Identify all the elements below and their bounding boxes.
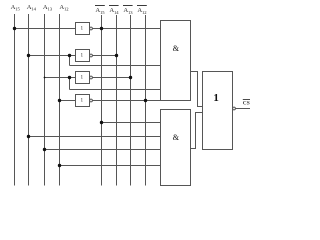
svg-text:CS: CS [243, 101, 250, 107]
svg-text:15: 15 [15, 7, 20, 12]
svg-text:14: 14 [31, 7, 36, 12]
wire OR output [235, 108, 250, 110]
node nA14 label [109, 6, 119, 15]
svg-text:15: 15 [100, 10, 105, 15]
svg-text:1: 1 [81, 74, 84, 80]
wire row4 A12 to inverter 4 input [60, 100, 76, 102]
junction dot A12 AND2 [58, 164, 61, 167]
wire row3 inverter 3 output to nA13 bus [93, 77, 131, 79]
svg-text:13: 13 [128, 10, 133, 15]
junction dot nA15 AND2 [100, 121, 103, 124]
and-gate D1 [161, 21, 191, 101]
wire row1 A15 to inverter 1 input [15, 28, 76, 30]
node nA13 label [123, 6, 133, 15]
wire A12 to AND2 input 4 [60, 165, 161, 167]
wire bus nA12 vertical [145, 15, 147, 186]
svg-text:1: 1 [81, 25, 84, 31]
node nA15 label [95, 6, 105, 15]
wire AND1 output to OR input 1 [191, 72, 203, 107]
wire A13 to AND1 input 3 [70, 89, 161, 91]
junction dot A14 AND2 [27, 135, 30, 138]
wire row1 inverter 1 output to AND1 input 1 [93, 28, 161, 30]
junction dot nA13 row3 [129, 76, 132, 79]
node CS output label [243, 100, 250, 107]
junction dot branch A14 [68, 54, 71, 57]
junction dot branch A13 [68, 76, 71, 79]
wire nA15 to AND2 input 1 [102, 122, 161, 124]
node nA12 label [137, 6, 147, 15]
junction dot A14 row2 [27, 54, 30, 57]
wire row4 inverter 4 output to AND1 input 4 [93, 100, 161, 102]
inverter U4 [76, 95, 93, 107]
inverter U3 [76, 72, 93, 84]
svg-text:&: & [173, 133, 180, 142]
wire bus A15 vertical [14, 14, 16, 186]
junction dot nA12 row4 [144, 99, 147, 102]
wire branch A13 down [69, 78, 71, 90]
junction dot A13 row3 [44, 77, 46, 79]
wire bus A13 vertical [44, 14, 46, 186]
svg-text:12: 12 [64, 7, 69, 12]
wire row3 A13 to inverter 3 input [45, 77, 76, 79]
junction dot nA14 row2 [115, 54, 118, 57]
wire A13 to AND2 input 3 [45, 149, 161, 151]
inverter U1 [76, 23, 93, 35]
junction dot A15 row1 [13, 27, 16, 30]
svg-text:1: 1 [81, 97, 84, 103]
wire bus nA13 vertical [130, 15, 132, 186]
inverter U2 [76, 50, 93, 62]
wire AND2 output to OR input 2 [191, 113, 203, 149]
junction dot A12 row4 [58, 99, 61, 102]
or-gate D3 [203, 72, 236, 150]
node A12 label [59, 4, 69, 12]
svg-text:13: 13 [48, 7, 53, 12]
wire bus A12 vertical [59, 14, 61, 186]
junction dot A13 AND2 [43, 148, 46, 151]
and-gate D2 [161, 110, 191, 186]
junction dot nA15 row1 [100, 27, 103, 30]
wire bus nA14 vertical [116, 15, 118, 186]
svg-text:12: 12 [142, 10, 147, 15]
svg-text:14: 14 [114, 10, 119, 15]
wire A14 to AND1 input 2 [70, 65, 161, 67]
wire bus A14 vertical [28, 14, 30, 186]
svg-text:1: 1 [81, 52, 84, 58]
wire bus nA15 vertical [101, 15, 103, 186]
svg-text:1: 1 [213, 92, 219, 104]
node A14 label [27, 4, 37, 12]
node A15 label [11, 4, 21, 12]
wire A14 to AND2 input 2 [29, 136, 161, 138]
svg-text:&: & [173, 44, 180, 53]
wire row2 inverter 2 output to nA14 bus [93, 55, 117, 57]
node A13 label [43, 4, 53, 12]
wire branch A14 down [69, 56, 71, 66]
wire row2 A14 to inverter 2 input [29, 55, 76, 57]
